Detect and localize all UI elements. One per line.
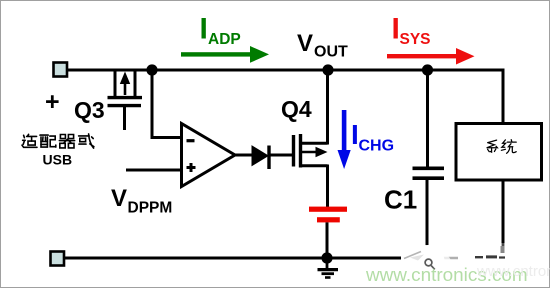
或 <box>79 134 94 148</box>
capacitor C1 <box>413 69 445 251</box>
器 <box>59 135 74 148</box>
wire diode to Q4 gate <box>269 154 292 157</box>
wire top rail <box>67 70 503 122</box>
svg-text:SYS: SYS <box>400 31 431 48</box>
svg-text:CHG: CHG <box>359 138 395 155</box>
diode D1 <box>252 146 269 170</box>
junction node at ground rail <box>321 252 332 263</box>
current arrow ISYS <box>387 48 475 65</box>
junction node at Q3 drain <box>146 64 157 75</box>
svg-text:I: I <box>200 13 208 46</box>
svg-text:www.cntronics: www.cntronics <box>476 263 550 280</box>
battery BT1 <box>309 207 347 223</box>
system block <box>456 124 542 181</box>
svg-text:Q4: Q4 <box>281 96 312 122</box>
svg-text:DPPM: DPPM <box>128 200 173 217</box>
label ISYS (red) <box>392 13 431 49</box>
系 <box>487 140 498 152</box>
current arrow ICHG (blue) <box>338 110 351 169</box>
svg-text:C1: C1 <box>384 185 417 215</box>
label system (系统 hand drawn) <box>487 140 517 154</box>
watermark logo magnifier glow <box>404 245 451 277</box>
transistor Q3 <box>108 69 143 130</box>
watermark remnant marks <box>475 246 505 259</box>
label ICHG (blue) <box>351 119 394 155</box>
terminal adapter input <box>54 63 68 77</box>
junction node at C1 top <box>422 64 433 75</box>
wire op-amp output <box>235 154 252 157</box>
ground <box>318 258 339 278</box>
svg-text:V: V <box>297 30 313 57</box>
op-amp U1 <box>182 124 236 187</box>
svg-text:USB: USB <box>43 152 73 168</box>
svg-text:OUT: OUT <box>314 44 348 61</box>
current arrow IADP <box>181 46 269 63</box>
wire op-amp non-inverting input <box>126 169 180 172</box>
wire bottom rail <box>64 181 503 258</box>
svg-text:V: V <box>111 185 127 212</box>
svg-text:ADP: ADP <box>208 31 241 48</box>
label IADP (green) <box>200 13 241 49</box>
label adapter-or (适配器或 hand drawn) <box>22 134 94 148</box>
统 <box>501 140 516 154</box>
wire battery to ground rail <box>326 222 329 258</box>
配 <box>40 135 56 147</box>
svg-text:Q3: Q3 <box>74 97 105 123</box>
适 <box>22 134 37 147</box>
svg-text:+: + <box>45 88 60 116</box>
transistor Q4 <box>294 69 328 209</box>
terminal ground input <box>51 252 65 266</box>
wire to op-amp inverting input <box>152 70 180 138</box>
junction node at Q4 drain / VOUT <box>322 64 333 75</box>
wire bottom rail faded segment <box>436 257 458 260</box>
